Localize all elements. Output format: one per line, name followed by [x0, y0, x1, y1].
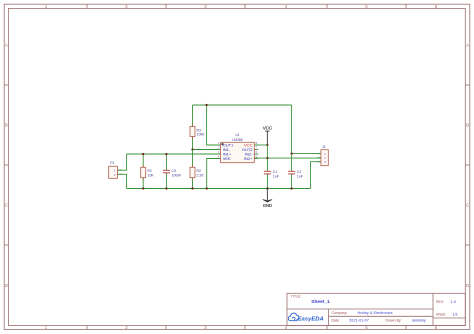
wire OUT1 top net [193, 104, 292, 106]
svg-text:1/1: 1/1 [453, 312, 458, 317]
wire C1 top [266, 158, 268, 171]
op-amp U1 LM358 [217, 133, 259, 163]
svg-text:Hobby & Electronics: Hobby & Electronics [358, 310, 393, 315]
svg-text:TITLE:: TITLE: [291, 294, 302, 298]
svg-text:Date:: Date: [332, 319, 340, 323]
svg-text:C: C [466, 203, 469, 208]
capacitor C2 [288, 170, 303, 178]
svg-text:VCC: VCC [263, 125, 272, 130]
svg-text:10K: 10K [148, 173, 155, 177]
resistor R1 [141, 165, 155, 180]
junction VCC [266, 144, 268, 146]
svg-text:GND: GND [263, 203, 272, 208]
wire OUT1 drop to pin 1 [207, 105, 221, 145]
junction R1/signal [142, 153, 144, 155]
svg-text:B: B [466, 123, 469, 128]
svg-text:IN2+: IN2+ [244, 156, 253, 161]
junction rail R2 [191, 187, 193, 189]
svg-text:LM358: LM358 [232, 138, 242, 142]
svg-text:Drawn By:: Drawn By: [386, 319, 402, 323]
title block [287, 293, 465, 325]
svg-text:A: A [466, 43, 469, 48]
svg-text:1uF: 1uF [273, 174, 279, 178]
wire OUT1 to J1 pin 1 [292, 153, 321, 155]
capacitor C3 [163, 169, 182, 177]
junction rail VEE [206, 187, 208, 189]
wire J1 pin3 to ground rail [311, 162, 321, 189]
svg-text:Sheet:: Sheet: [436, 313, 446, 317]
junction IN2+/VCC [266, 157, 268, 159]
svg-text:100K: 100K [197, 133, 206, 137]
wire P1 pin1 to signal [117, 154, 126, 170]
wire IN2+ line to J1 pin 2 [254, 157, 321, 159]
svg-text:A: A [5, 43, 8, 48]
junction rail C3 [165, 187, 167, 189]
wire P1 pin2 to ground [117, 174, 126, 188]
junction top wire [205, 104, 207, 106]
wire VCC pin to flag [254, 144, 267, 146]
wire OUT1 net right vertical [291, 105, 293, 154]
svg-text:2021-01-07: 2021-01-07 [349, 318, 369, 323]
svg-text:REV:: REV: [436, 300, 444, 304]
junction rail C2 [290, 187, 292, 189]
wire IN1+ signal line [127, 153, 221, 155]
resistor R2 [190, 165, 204, 180]
svg-text:P1: P1 [110, 161, 114, 165]
connector P1 [109, 161, 122, 178]
svg-text:1.0: 1.0 [451, 299, 457, 304]
wire R2 top [192, 150, 194, 168]
svg-text:D: D [5, 283, 8, 288]
wire VEE to ground rail [207, 159, 221, 189]
svg-text:C: C [5, 203, 8, 208]
wire ground rail [127, 188, 311, 190]
wire C2 bottom [291, 174, 293, 189]
junction rail C1 [266, 187, 268, 189]
junction C3/signal [165, 153, 167, 155]
wire C1 bottom [266, 174, 268, 189]
wire R2 bottom to ground rail [192, 178, 194, 189]
svg-text:1uF: 1uF [297, 174, 303, 178]
wire R3 top [192, 105, 194, 127]
svg-text:lamkisly: lamkisly [412, 318, 426, 323]
junction OUT1/J1 [290, 152, 292, 154]
svg-text:U1: U1 [235, 133, 239, 137]
junction rail R1 [142, 187, 144, 189]
connector J1 [317, 145, 328, 166]
svg-text:D: D [466, 283, 469, 288]
resistor R3 [190, 124, 205, 139]
wire R1 bottom [142, 178, 144, 189]
wire C2 top [291, 154, 293, 172]
svg-text:100nF: 100nF [172, 173, 182, 177]
svg-text:B: B [5, 123, 8, 128]
junction node FB [191, 148, 193, 150]
svg-text:VEE: VEE [223, 156, 231, 161]
wire C3 bottom [165, 173, 167, 189]
ground [263, 189, 272, 209]
wire R1 top [142, 154, 144, 167]
wire C3 top [165, 154, 167, 170]
power flag VCC [263, 125, 272, 145]
wire node FB to IN1- pin [193, 149, 221, 151]
wire VCC vertical to IN2+ line [266, 145, 268, 158]
svg-text:J1: J1 [322, 145, 326, 149]
capacitor C1 [264, 170, 279, 178]
svg-text:Sheet_1: Sheet_1 [311, 299, 330, 305]
svg-text:Company:: Company: [332, 311, 348, 315]
svg-text:EasyEDA: EasyEDA [298, 316, 324, 322]
wire R3 bottom to node FB [192, 137, 194, 150]
svg-text:2.2K: 2.2K [197, 173, 205, 177]
